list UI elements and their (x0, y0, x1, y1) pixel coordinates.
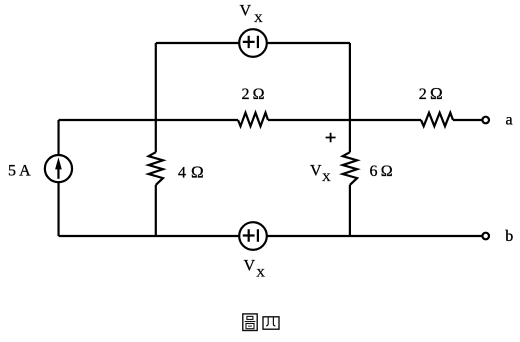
svg-text:V: V (240, 3, 252, 20)
svg-text:V: V (244, 258, 256, 275)
svg-text:Ω: Ω (381, 163, 393, 180)
svg-text:Ω: Ω (253, 86, 265, 103)
svg-text:X: X (256, 266, 265, 280)
svg-text:X: X (254, 11, 263, 25)
svg-text:a: a (506, 112, 513, 129)
svg-text:Ω: Ω (430, 84, 443, 103)
svg-text:2: 2 (419, 86, 427, 103)
svg-text:4: 4 (178, 165, 186, 182)
svg-text:5 A: 5 A (8, 163, 31, 180)
svg-text:X: X (322, 170, 331, 184)
svg-text:2: 2 (242, 86, 250, 103)
svg-text:Ω: Ω (191, 163, 204, 182)
svg-text:6: 6 (370, 163, 378, 180)
svg-text:V: V (310, 163, 322, 180)
svg-text:b: b (505, 228, 513, 245)
